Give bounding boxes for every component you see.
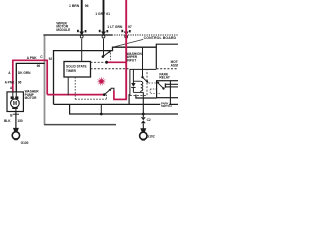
svg-text:1 GRY: 1 GRY <box>95 12 106 16</box>
svg-text:TIMER: TIMER <box>66 69 77 73</box>
svg-text:SWITCH: SWITCH <box>161 104 172 108</box>
svg-text:BLK: BLK <box>4 119 11 123</box>
svg-text:G102: G102 <box>147 135 155 139</box>
svg-text:MODULE: MODULE <box>56 28 70 32</box>
svg-text:A PNK: A PNK <box>27 56 37 60</box>
svg-text:C2: C2 <box>147 118 151 122</box>
svg-text:A PNK: A PNK <box>5 80 15 84</box>
svg-text:INPUT: INPUT <box>127 58 137 62</box>
svg-text:97: 97 <box>128 25 132 29</box>
svg-text:DK GRN: DK GRN <box>18 71 31 75</box>
svg-text:61: 61 <box>106 12 110 16</box>
svg-text:MOTOR: MOTOR <box>25 96 38 100</box>
svg-text:96: 96 <box>85 4 89 8</box>
svg-text:96: 96 <box>18 80 22 84</box>
svg-text:G100: G100 <box>21 141 29 145</box>
svg-text:92: 92 <box>49 57 53 61</box>
svg-text:1 LT GRN: 1 LT GRN <box>107 25 123 29</box>
svg-text:1 BRN: 1 BRN <box>69 4 80 8</box>
svg-text:96: 96 <box>37 64 41 68</box>
svg-text:M: M <box>13 101 17 107</box>
svg-text:RELAY: RELAY <box>159 76 170 80</box>
svg-text:150: 150 <box>17 119 23 123</box>
svg-text:CONTROL BOARD: CONTROL BOARD <box>144 36 177 40</box>
svg-text:ASSM: ASSM <box>171 64 178 68</box>
